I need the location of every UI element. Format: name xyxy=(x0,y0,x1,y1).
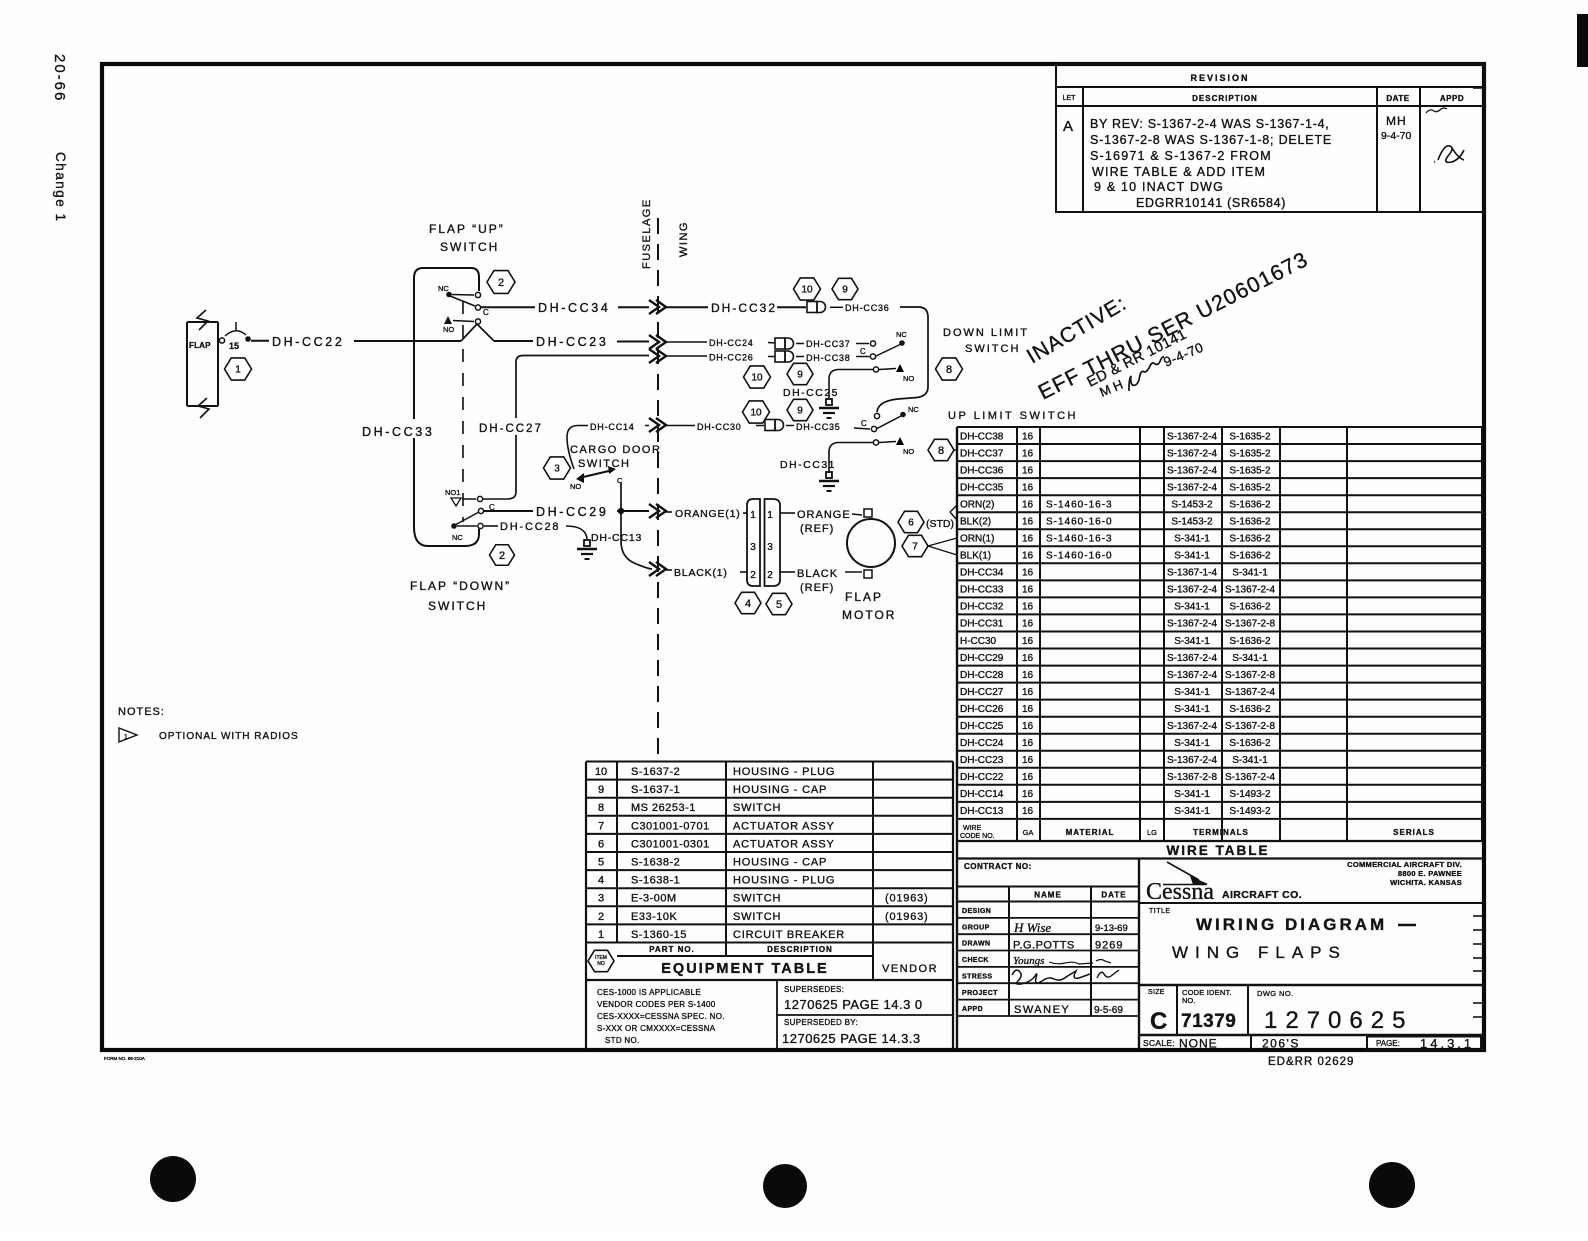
svg-text:MATERIAL: MATERIAL xyxy=(1066,828,1115,837)
svg-text:S-1635-2: S-1635-2 xyxy=(1229,482,1271,493)
svg-text:FLAP: FLAP xyxy=(189,341,211,350)
sheet border frame xyxy=(102,64,1484,1050)
svg-text:Youngs: Youngs xyxy=(1013,955,1044,967)
svg-text:S-341-1: S-341-1 xyxy=(1174,687,1210,698)
svg-text:VENDOR CODES PER S-1400: VENDOR CODES PER S-1400 xyxy=(597,1000,716,1009)
svg-text:S-1636-2: S-1636-2 xyxy=(1229,517,1271,528)
svg-text:NC: NC xyxy=(908,405,919,414)
leader lines to wire table xyxy=(928,538,957,555)
wire DH-CC27 xyxy=(515,435,517,492)
svg-text:CIRCUIT BREAKER: CIRCUIT BREAKER xyxy=(733,929,845,941)
svg-text:DESCRIPTION: DESCRIPTION xyxy=(767,945,833,954)
bulkhead feed-through DH-CC29/ORANGE(1) xyxy=(649,504,666,518)
svg-text:ORANGE: ORANGE xyxy=(797,509,851,521)
svg-text:C: C xyxy=(860,347,866,356)
svg-text:SWITCH: SWITCH xyxy=(733,802,781,814)
svg-text:16: 16 xyxy=(1022,517,1034,528)
svg-text:DH-CC33: DH-CC33 xyxy=(960,585,1004,596)
svg-text:NOTES:: NOTES: xyxy=(118,706,165,718)
svg-text:S-1367-2-8: S-1367-2-8 xyxy=(1225,619,1275,630)
svg-text:DH-CC34: DH-CC34 xyxy=(538,301,610,315)
svg-text:S-1460-16-0: S-1460-16-0 xyxy=(1046,517,1113,528)
svg-text:WIRE: WIRE xyxy=(963,825,982,832)
svg-text:FORM NO. 88-210A: FORM NO. 88-210A xyxy=(104,1056,145,1061)
svg-text:SWITCH: SWITCH xyxy=(440,240,499,254)
svg-text:S-1367-2-4: S-1367-2-4 xyxy=(1167,670,1217,681)
svg-text:SWITCH: SWITCH xyxy=(733,893,781,905)
wire DH-CC29 xyxy=(484,510,533,512)
svg-text:NO.: NO. xyxy=(1182,996,1195,1005)
approval signature marks xyxy=(1426,108,1447,113)
svg-text:MH: MH xyxy=(1386,114,1407,128)
svg-text:S-1367-1-4: S-1367-1-4 xyxy=(1167,568,1217,579)
binder tick marks right edge xyxy=(1473,88,1483,1017)
svg-text:DH-CC28: DH-CC28 xyxy=(500,521,560,533)
svg-text:DH-CC32: DH-CC32 xyxy=(960,602,1004,613)
svg-text:S-1367-2-4: S-1367-2-4 xyxy=(1225,772,1275,783)
svg-text:NO: NO xyxy=(443,325,454,334)
design/approval rows xyxy=(957,918,1139,1016)
svg-text:GA: GA xyxy=(1023,828,1034,837)
svg-text:DRAWN: DRAWN xyxy=(962,941,990,948)
svg-text:DH-CC27: DH-CC27 xyxy=(960,687,1004,698)
svg-text:S-1636-2: S-1636-2 xyxy=(1229,534,1271,545)
svg-text:ORN(1): ORN(1) xyxy=(960,534,994,545)
wire DH-CC25 to ground xyxy=(829,370,874,399)
svg-text:DWG NO.: DWG NO. xyxy=(1257,989,1294,998)
svg-text:SIZE: SIZE xyxy=(1148,989,1165,996)
note 1 optional flag triangle xyxy=(119,728,137,742)
svg-text:NC: NC xyxy=(438,284,449,293)
svg-text:8800 E. PAWNEE: 8800 E. PAWNEE xyxy=(1398,869,1462,878)
svg-text:S-1636-2: S-1636-2 xyxy=(1229,636,1271,647)
svg-text:20-66: 20-66 xyxy=(51,54,68,102)
wire BLACK (REF) xyxy=(780,571,795,573)
hexagon ref 3 xyxy=(544,457,571,479)
svg-text:1270625 PAGE 14.3.3: 1270625 PAGE 14.3.3 xyxy=(782,1031,921,1046)
svg-text:16: 16 xyxy=(1022,500,1034,511)
svg-text:C: C xyxy=(617,476,623,485)
splice connector DH-CC24/DH-CC37 xyxy=(775,338,794,349)
svg-text:15: 15 xyxy=(229,341,239,351)
svg-text:S-1460-16-3: S-1460-16-3 xyxy=(1046,500,1113,511)
splice connector DH-CC26/DH-CC38 xyxy=(775,351,794,362)
svg-text:DH-CC22: DH-CC22 xyxy=(960,772,1004,783)
svg-text:P.G.POTTS: P.G.POTTS xyxy=(1013,940,1075,952)
svg-text:CARGO DOOR: CARGO DOOR xyxy=(570,444,661,456)
svg-text:CES-1000 IS APPLICABLE: CES-1000 IS APPLICABLE xyxy=(597,988,701,997)
svg-text:PROJECT: PROJECT xyxy=(962,990,998,997)
svg-text:LET: LET xyxy=(1063,95,1077,102)
svg-text:CES-XXXX=CESSNA SPEC. NO.: CES-XXXX=CESSNA SPEC. NO. xyxy=(597,1012,725,1021)
svg-text:NAME: NAME xyxy=(1034,891,1062,900)
svg-text:HOUSING - PLUG: HOUSING - PLUG xyxy=(733,766,835,778)
revision table xyxy=(1056,64,1485,212)
svg-text:(01963): (01963) xyxy=(885,911,929,923)
svg-text:S-1367-2-4: S-1367-2-4 xyxy=(1167,431,1217,442)
equipment table rows xyxy=(595,766,929,941)
hexagon ref 5 xyxy=(766,593,792,614)
svg-text:FUSELAGE: FUSELAGE xyxy=(641,198,653,269)
svg-text:WICHITA. KANSAS: WICHITA. KANSAS xyxy=(1390,878,1462,887)
svg-text:S-1637-2: S-1637-2 xyxy=(631,766,680,778)
svg-text:E33-10K: E33-10K xyxy=(631,911,677,923)
wire DH-CC23 xyxy=(494,340,533,342)
hexagon ref 8 down limit xyxy=(936,358,963,380)
svg-text:9: 9 xyxy=(797,370,803,381)
svg-text:S-1636-2: S-1636-2 xyxy=(1229,551,1271,562)
svg-text:FLAP “DOWN”: FLAP “DOWN” xyxy=(410,579,511,593)
hexagon ref 8 up limit xyxy=(928,439,954,460)
svg-text:2: 2 xyxy=(598,911,604,923)
svg-text:APPD: APPD xyxy=(962,1006,983,1013)
svg-text:C: C xyxy=(483,308,489,317)
wire table rows xyxy=(960,431,1275,817)
svg-text:SERIALS: SERIALS xyxy=(1393,828,1435,837)
svg-text:16: 16 xyxy=(1022,431,1034,442)
svg-text:10: 10 xyxy=(751,373,763,384)
svg-text:9: 9 xyxy=(797,406,803,417)
svg-text:BLK(2): BLK(2) xyxy=(960,517,991,528)
svg-text:S-XXX OR CMXXXX=CESSNA: S-XXX OR CMXXXX=CESSNA xyxy=(597,1024,716,1033)
svg-text:SCALE:: SCALE: xyxy=(1143,1038,1175,1048)
svg-text:CONTRACT NO:: CONTRACT NO: xyxy=(964,862,1032,871)
svg-text:16: 16 xyxy=(1022,687,1034,698)
svg-text:NO: NO xyxy=(903,447,914,456)
svg-text:WIRING DIAGRAM: WIRING DIAGRAM xyxy=(1196,915,1387,934)
svg-text:BLACK: BLACK xyxy=(797,568,838,580)
wire DH-CC26 xyxy=(666,355,707,357)
svg-text:AIRCRAFT CO.: AIRCRAFT CO. xyxy=(1222,889,1302,901)
hexagon ref 6 xyxy=(898,511,924,532)
bulkhead feed-through DH-CC34/DH-CC32 xyxy=(649,300,666,314)
svg-text:9-13-69: 9-13-69 xyxy=(1095,923,1128,934)
svg-text:10: 10 xyxy=(801,285,813,296)
svg-text:S-1453-2: S-1453-2 xyxy=(1171,517,1213,528)
svg-text:S-1638-1: S-1638-1 xyxy=(631,875,680,887)
wire DH-CC37 xyxy=(796,343,804,345)
svg-text:1: 1 xyxy=(598,929,604,941)
svg-text:DH-CC22: DH-CC22 xyxy=(272,335,344,349)
hole punch left xyxy=(150,1156,196,1202)
svg-text:FLAP: FLAP xyxy=(845,590,883,604)
svg-text:7: 7 xyxy=(912,542,918,553)
ground DH-CC25 xyxy=(819,399,839,418)
svg-text:5: 5 xyxy=(598,857,604,869)
svg-text:4: 4 xyxy=(745,598,751,610)
svg-text:8: 8 xyxy=(946,364,952,376)
svg-text:16: 16 xyxy=(1022,568,1034,579)
svg-text:2: 2 xyxy=(750,570,756,581)
wire DH-CC34 xyxy=(481,306,535,308)
svg-text:DH-CC28: DH-CC28 xyxy=(960,670,1004,681)
svg-text:CHECK: CHECK xyxy=(962,957,989,964)
circuit breaker CB contacts xyxy=(219,338,224,343)
svg-text:DH-CC38: DH-CC38 xyxy=(960,431,1004,442)
svg-text:DH-CC31: DH-CC31 xyxy=(960,619,1004,630)
svg-text:(01963): (01963) xyxy=(885,893,929,905)
ground DH-CC31 xyxy=(819,472,839,491)
svg-text:DH-CC13: DH-CC13 xyxy=(960,806,1004,817)
bulkhead feed-through DH-CC27/DH-CC26 xyxy=(649,349,666,363)
wire table xyxy=(957,427,1482,859)
hexagon ref 10 upper xyxy=(794,278,821,300)
svg-text:Change 1: Change 1 xyxy=(53,152,68,223)
svg-text:6: 6 xyxy=(598,838,604,850)
svg-text:DESIGN: DESIGN xyxy=(962,908,991,915)
svg-text:C301001-0301: C301001-0301 xyxy=(631,838,710,850)
wire DH-CC28 xyxy=(484,525,498,527)
svg-text:DH-CC36: DH-CC36 xyxy=(960,465,1004,476)
svg-text:DH-CC37: DH-CC37 xyxy=(806,339,851,349)
svg-text:DH-CC26: DH-CC26 xyxy=(709,353,754,363)
handwritten initials xyxy=(1122,357,1171,391)
svg-text:BLACK(1): BLACK(1) xyxy=(674,567,728,579)
svg-text:TITLE: TITLE xyxy=(1149,908,1171,915)
down limit switch xyxy=(870,341,875,346)
svg-text:9-4-70: 9-4-70 xyxy=(1381,130,1412,142)
flap switch enclosure (rounded) xyxy=(414,268,479,546)
bulkhead feed-through DH-CC23/DH-CC24 xyxy=(649,335,666,349)
svg-text:9: 9 xyxy=(598,784,604,796)
wire DH-CC14 xyxy=(567,426,588,470)
svg-text:DH-CC30: DH-CC30 xyxy=(697,422,742,432)
svg-text:3: 3 xyxy=(767,542,773,553)
svg-text:C301001-0701: C301001-0701 xyxy=(631,820,710,832)
svg-text:S-341-1: S-341-1 xyxy=(1174,534,1210,545)
svg-text:10: 10 xyxy=(750,408,762,419)
svg-text:S-1638-2: S-1638-2 xyxy=(631,857,680,869)
svg-text:SWITCH: SWITCH xyxy=(428,599,487,613)
svg-text:NO: NO xyxy=(570,482,581,491)
hexagon ref 7 xyxy=(902,535,928,556)
svg-text:LG: LG xyxy=(1147,828,1157,837)
svg-text:S-1367-2-8: S-1367-2-8 xyxy=(1167,772,1217,783)
svg-text:DH-CC37: DH-CC37 xyxy=(960,448,1004,459)
svg-text:9269: 9269 xyxy=(1095,940,1123,952)
svg-text:2: 2 xyxy=(498,277,504,289)
svg-text:16: 16 xyxy=(1022,585,1034,596)
svg-text:16: 16 xyxy=(1022,721,1034,732)
svg-text:71379: 71379 xyxy=(1181,1011,1236,1032)
svg-text:A: A xyxy=(1063,118,1073,135)
svg-text:DH-CC25: DH-CC25 xyxy=(960,721,1004,732)
svg-text:16: 16 xyxy=(1022,619,1034,630)
svg-text:NONE: NONE xyxy=(1179,1037,1218,1051)
mechanical link dashed line xyxy=(462,301,464,522)
svg-text:NO: NO xyxy=(903,374,914,383)
hexagon ref 10 lower xyxy=(743,401,770,423)
bulkhead feed-through DH-CC14/DH-CC30 xyxy=(649,418,666,432)
svg-text:S-1635-2: S-1635-2 xyxy=(1229,465,1271,476)
svg-text:1: 1 xyxy=(124,734,128,741)
svg-text:S-341-1: S-341-1 xyxy=(1174,806,1210,817)
svg-text:DH-CC31: DH-CC31 xyxy=(780,459,836,471)
svg-text:1: 1 xyxy=(767,510,773,521)
svg-text:6: 6 xyxy=(908,518,914,529)
svg-text:16: 16 xyxy=(1022,482,1034,493)
svg-text:CODE NO.: CODE NO. xyxy=(960,833,995,840)
svg-text:(STD): (STD) xyxy=(926,518,954,530)
svg-text:DESCRIPTION: DESCRIPTION xyxy=(1192,94,1258,103)
svg-text:3: 3 xyxy=(598,893,604,905)
item-number hexagon symbol xyxy=(588,950,614,971)
hexagon ref 2 upper xyxy=(487,271,515,294)
fuselage/wing station dashed line xyxy=(657,218,659,757)
ground DH-CC13 xyxy=(577,540,597,559)
stress signature xyxy=(1012,970,1090,984)
flap motor connector housings xyxy=(747,499,780,586)
hexagon ref 4 xyxy=(735,592,761,613)
svg-text:16: 16 xyxy=(1022,772,1034,783)
svg-text:1: 1 xyxy=(750,510,756,521)
svg-text:FLAP “UP”: FLAP “UP” xyxy=(429,222,505,236)
svg-text:BY REV: S-1367-2-4 WAS S-1367-: BY REV: S-1367-2-4 WAS S-1367-1-4, xyxy=(1090,117,1329,131)
wire DH-CC22 xyxy=(251,340,269,342)
wire DH-CC35 xyxy=(786,425,794,427)
svg-text:DH-CC27: DH-CC27 xyxy=(479,423,543,435)
svg-text:16: 16 xyxy=(1022,670,1034,681)
wire ORANGE(1) xyxy=(666,511,672,513)
svg-text:(REF): (REF) xyxy=(800,582,834,594)
svg-text:DH-CC33: DH-CC33 xyxy=(362,425,434,439)
svg-text:16: 16 xyxy=(1022,806,1034,817)
hole punch center xyxy=(763,1164,807,1208)
svg-text:S-341-1: S-341-1 xyxy=(1174,602,1210,613)
svg-text:DH-CC29: DH-CC29 xyxy=(536,505,608,519)
wire DH-CC24 xyxy=(666,341,707,343)
splice connector DH-CC32/DH-CC36 xyxy=(807,302,826,313)
svg-text:DH-CC38: DH-CC38 xyxy=(806,353,851,363)
svg-text:S-1367-2-8 WAS S-1367-1-8; DEL: S-1367-2-8 WAS S-1367-1-8; DELETE xyxy=(1090,133,1332,147)
svg-text:S-1460-16-3: S-1460-16-3 xyxy=(1046,534,1113,545)
svg-text:DH-CC34: DH-CC34 xyxy=(960,568,1004,579)
svg-text:S-1635-2: S-1635-2 xyxy=(1229,431,1271,442)
svg-text:DH-CC24: DH-CC24 xyxy=(709,338,754,348)
svg-text:SWITCH: SWITCH xyxy=(965,343,1020,355)
svg-text:S-341-1: S-341-1 xyxy=(1174,704,1210,715)
svg-text:7: 7 xyxy=(598,820,604,832)
equipment table xyxy=(586,762,953,1050)
svg-text:S-1367-2-4: S-1367-2-4 xyxy=(1167,482,1217,493)
svg-text:E-3-00M: E-3-00M xyxy=(631,893,677,905)
svg-text:14.3.1: 14.3.1 xyxy=(1420,1036,1474,1051)
svg-text:S-1367-2-8: S-1367-2-8 xyxy=(1225,721,1275,732)
svg-text:HOUSING - PLUG: HOUSING - PLUG xyxy=(733,875,835,887)
svg-text:SUPERSEDED BY:: SUPERSEDED BY: xyxy=(784,1018,858,1027)
svg-text:HOUSING - CAP: HOUSING - CAP xyxy=(733,784,827,796)
svg-text:DATE: DATE xyxy=(1386,94,1409,103)
svg-text:NO: NO xyxy=(597,961,605,967)
svg-text:2: 2 xyxy=(499,550,505,562)
svg-text:SUPERSEDES:: SUPERSEDES: xyxy=(784,985,844,994)
handwritten note INACTIVE xyxy=(1023,247,1312,404)
svg-text:4: 4 xyxy=(598,875,604,887)
svg-text:DH-CC14: DH-CC14 xyxy=(960,789,1004,800)
svg-text:S-1493-2: S-1493-2 xyxy=(1229,789,1271,800)
wire DH-CC36 xyxy=(830,306,843,308)
svg-text:S-1636-2: S-1636-2 xyxy=(1229,500,1271,511)
wire ORANGE (REF) xyxy=(780,512,795,514)
svg-text:S-1367-2-4: S-1367-2-4 xyxy=(1225,687,1275,698)
svg-text:S-1637-1: S-1637-1 xyxy=(631,784,680,796)
svg-text:GROUP: GROUP xyxy=(962,924,990,931)
svg-text:S-1460-16-0: S-1460-16-0 xyxy=(1046,551,1113,562)
svg-text:SWANEY: SWANEY xyxy=(1014,1004,1070,1016)
svg-text:PART NO.: PART NO. xyxy=(649,945,695,954)
svg-text:NC: NC xyxy=(452,533,463,542)
svg-text:DOWN LIMIT: DOWN LIMIT xyxy=(943,327,1029,339)
svg-text:ORN(2): ORN(2) xyxy=(960,500,994,511)
bulkhead feed-through BLACK(1) xyxy=(649,562,666,576)
svg-text:DH-CC35: DH-CC35 xyxy=(796,422,841,432)
svg-text:VENDOR: VENDOR xyxy=(882,963,938,975)
svg-text:(REF): (REF) xyxy=(800,523,834,535)
svg-text:16: 16 xyxy=(1022,636,1034,647)
svg-text:S-341-1: S-341-1 xyxy=(1232,653,1268,664)
cargo switch arm xyxy=(579,470,613,478)
svg-text:S-1367-2-4: S-1367-2-4 xyxy=(1167,755,1217,766)
svg-text:ORANGE(1): ORANGE(1) xyxy=(675,508,741,520)
svg-text:16: 16 xyxy=(1022,755,1034,766)
svg-text:BLK(1): BLK(1) xyxy=(960,551,991,562)
svg-text:S-341-1: S-341-1 xyxy=(1174,789,1210,800)
switch arm V to wire xyxy=(461,324,494,341)
svg-text:S-1493-2: S-1493-2 xyxy=(1229,806,1271,817)
title block xyxy=(957,427,1139,1049)
svg-text:EQUIPMENT TABLE: EQUIPMENT TABLE xyxy=(661,961,828,977)
svg-text:TERMINALS: TERMINALS xyxy=(1193,828,1249,837)
svg-text:2: 2 xyxy=(767,570,773,581)
svg-text:1270625 PAGE 14.3 0: 1270625 PAGE 14.3 0 xyxy=(784,997,923,1012)
wire DH-CC30 xyxy=(666,425,695,427)
svg-text:S-341-1: S-341-1 xyxy=(1174,551,1210,562)
svg-text:DH-CC35: DH-CC35 xyxy=(960,482,1004,493)
svg-text:DH-CC29: DH-CC29 xyxy=(960,653,1004,664)
svg-text:S-1636-2: S-1636-2 xyxy=(1229,738,1271,749)
svg-text:DH-CC32: DH-CC32 xyxy=(711,301,777,315)
svg-text:H Wise: H Wise xyxy=(1013,920,1051,935)
junction node xyxy=(618,508,624,514)
svg-text:S-341-1: S-341-1 xyxy=(1174,636,1210,647)
svg-text:S-1367-2-8: S-1367-2-8 xyxy=(1225,670,1275,681)
wire DH-CC31 to ground xyxy=(829,443,874,472)
svg-text:16: 16 xyxy=(1022,448,1034,459)
svg-text:ACTUATOR ASSY: ACTUATOR ASSY xyxy=(733,820,835,832)
up limit switch xyxy=(874,413,879,418)
svg-text:DH-CC14: DH-CC14 xyxy=(590,422,635,432)
svg-text:S-1453-2: S-1453-2 xyxy=(1171,500,1213,511)
svg-text:MOTOR: MOTOR xyxy=(842,608,896,622)
svg-text:ED&RR 02629: ED&RR 02629 xyxy=(1268,1056,1354,1068)
svg-text:S-341-1: S-341-1 xyxy=(1232,755,1268,766)
svg-text:DH-CC26: DH-CC26 xyxy=(960,704,1004,715)
svg-text:S-1367-2-4: S-1367-2-4 xyxy=(1167,465,1217,476)
svg-text:8: 8 xyxy=(938,445,944,457)
hole punch right xyxy=(1369,1162,1415,1208)
svg-text:16: 16 xyxy=(1022,551,1034,562)
svg-text:HOUSING - CAP: HOUSING - CAP xyxy=(733,857,827,869)
svg-text:COMMERCIAL AIRCRAFT DIV.: COMMERCIAL AIRCRAFT DIV. xyxy=(1347,860,1462,869)
svg-text:H-CC30: H-CC30 xyxy=(960,636,997,647)
svg-text:16: 16 xyxy=(1022,789,1034,800)
vendor codes note box xyxy=(777,980,953,1049)
svg-text:REVISION: REVISION xyxy=(1190,73,1249,83)
svg-text:S-1367-2-4: S-1367-2-4 xyxy=(1167,653,1217,664)
hexagon ref 9 upper xyxy=(832,278,858,299)
svg-text:EDGRR10141 (SR6584): EDGRR10141 (SR6584) xyxy=(1136,196,1286,210)
corner registration mark top-right xyxy=(1577,14,1588,67)
